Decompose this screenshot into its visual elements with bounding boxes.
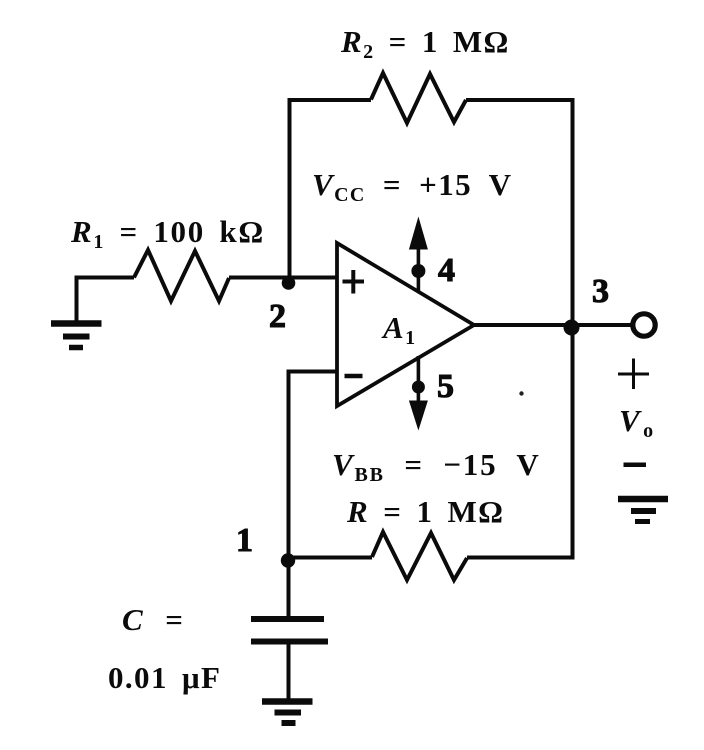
svg-text:4: 4: [438, 252, 455, 289]
svg-text:2: 2: [269, 298, 286, 335]
svg-text:5: 5: [437, 368, 454, 405]
svg-text:C =: C =: [122, 602, 184, 637]
svg-text:3: 3: [592, 273, 609, 310]
svg-text:0.01 μF: 0.01 μF: [108, 660, 221, 695]
svg-text:1: 1: [236, 522, 253, 559]
svg-text:R = 1 MΩ: R = 1 MΩ: [346, 494, 504, 529]
